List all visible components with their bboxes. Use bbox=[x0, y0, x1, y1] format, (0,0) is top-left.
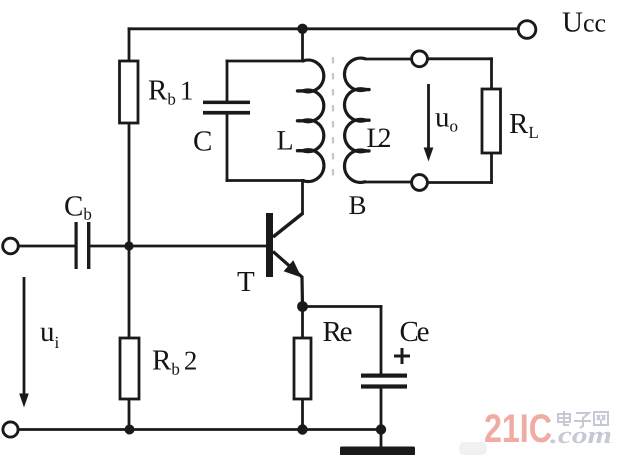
svg-text:Re: Re bbox=[323, 316, 353, 348]
svg-text:C: C bbox=[193, 126, 212, 158]
svg-text:L: L bbox=[277, 126, 294, 157]
svg-text:L2: L2 bbox=[367, 123, 392, 154]
svg-text:Ce: Ce bbox=[400, 316, 430, 348]
svg-text:B: B bbox=[349, 190, 367, 220]
svg-text:.com: .com bbox=[550, 423, 612, 449]
svg-text:T: T bbox=[237, 266, 255, 298]
svg-text:Ucc: Ucc bbox=[562, 7, 606, 39]
svg-text:21IC: 21IC bbox=[484, 407, 552, 451]
